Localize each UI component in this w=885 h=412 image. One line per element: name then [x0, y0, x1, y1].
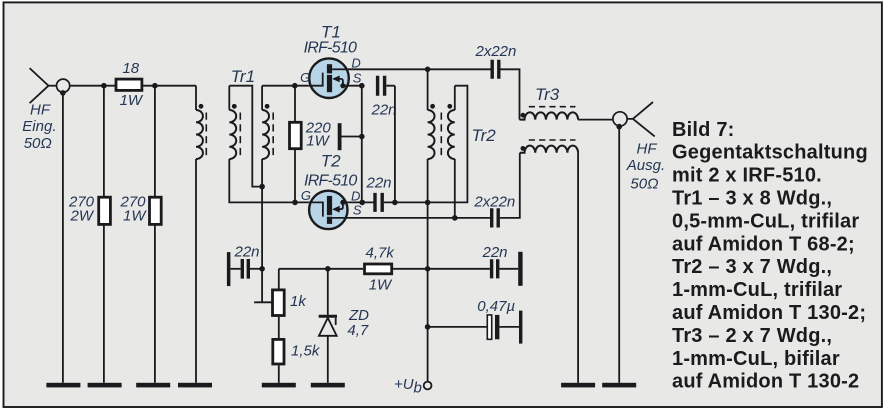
- svg-text:IRF-510: IRF-510: [304, 173, 357, 190]
- Tr2 left winding axis: [427, 69, 429, 381]
- svg-text:0,47µ: 0,47µ: [477, 298, 515, 315]
- ground bar 7: [561, 383, 595, 388]
- wire Tr3 bottom to ground: [577, 153, 579, 383]
- wire 0,47u row: [428, 326, 487, 328]
- svg-text:G: G: [301, 188, 311, 203]
- svg-text:mit 2 x IRF-510.: mit 2 x IRF-510.: [672, 165, 822, 187]
- svg-text:Bild 7:: Bild 7:: [672, 119, 735, 141]
- node output ground junction: [616, 124, 622, 130]
- node T2 gate: [292, 200, 298, 206]
- ground bar 4: [178, 383, 212, 388]
- svg-text:Tr1 – 3 x 8 Wdg.,: Tr1 – 3 x 8 Wdg.,: [672, 188, 832, 210]
- svg-text:1W: 1W: [120, 92, 144, 109]
- capacitor 2x22n top: [492, 60, 499, 79]
- svg-text:4,7k: 4,7k: [366, 245, 396, 262]
- svg-text:S: S: [353, 71, 362, 86]
- resistor 220 1W: [290, 122, 302, 148]
- svg-text:Tr2: Tr2: [472, 126, 497, 145]
- Tr2 right winding top wire: [454, 86, 456, 110]
- capacitor 22n bias: [242, 259, 248, 279]
- wire 270 1W branch: [154, 86, 156, 383]
- svg-text:D: D: [351, 189, 360, 204]
- potentiometer wiper bar: [254, 301, 272, 303]
- node supply column / bias row: [425, 266, 431, 272]
- wire bias ground to cap: [230, 268, 240, 270]
- wire output to ground: [618, 127, 620, 383]
- wire bottom cap to Tr3: [500, 153, 520, 218]
- resistor 4,7k 1W: [365, 264, 392, 274]
- ground bar 3: [136, 383, 170, 388]
- wire bias cap to node: [250, 268, 262, 270]
- svg-text:1-mm-CuL, trifilar: 1-mm-CuL, trifilar: [672, 279, 842, 301]
- svg-text:Tr2 – 3 x 7 Wdg.,: Tr2 – 3 x 7 Wdg.,: [672, 256, 832, 278]
- Tr1 winding 2 top link wire: [229, 86, 262, 187]
- svg-text:1,5k: 1,5k: [291, 343, 321, 360]
- svg-text:auf Amidon T 68-2;: auf Amidon T 68-2;: [672, 233, 855, 255]
- HF input connector arrow: [30, 68, 49, 103]
- svg-text:HF: HF: [30, 102, 51, 119]
- svg-text:b: b: [414, 380, 422, 397]
- Tr2 right winding polarity dot: [447, 104, 452, 109]
- wire T1 drain row: [346, 68, 491, 70]
- capacitor 22n bias right: [492, 259, 498, 278]
- ground bar 1: [46, 383, 80, 388]
- resistor 270 1W: [150, 197, 162, 224]
- wire 270 2W branch: [103, 86, 105, 383]
- node input ground junction: [60, 90, 66, 96]
- Tr1 winding 1 polarity dot: [199, 104, 204, 109]
- Tr1 winding 1 wire top: [195, 86, 197, 110]
- Tr1 winding 1 wire to ground: [195, 159, 197, 383]
- node zener tap: [325, 266, 331, 272]
- svg-text:Tr3 – 2 x 7 Wdg.,: Tr3 – 2 x 7 Wdg.,: [672, 325, 832, 347]
- wire Tr3 top to output: [578, 119, 612, 121]
- node 270-2W tap: [101, 83, 107, 89]
- svg-text:+U: +U: [394, 376, 414, 393]
- capacitor 22n T1 source: [378, 76, 385, 96]
- svg-text:22n: 22n: [482, 244, 508, 261]
- svg-text:T2: T2: [321, 151, 341, 170]
- resistor 18 1W: [116, 79, 142, 90]
- svg-text:50Ω: 50Ω: [630, 175, 658, 192]
- ground bar bias left: [227, 252, 231, 286]
- Tr3 bottom winding polarity dot: [521, 146, 526, 151]
- ground stub bar: [338, 123, 342, 150]
- svg-text:1W: 1W: [306, 133, 330, 150]
- wire top input row: [70, 85, 196, 87]
- supply terminal +Ub: [424, 382, 432, 390]
- wire 1k to 1.5k: [278, 317, 280, 338]
- svg-text:HF: HF: [637, 141, 658, 158]
- wire top cap to Tr3: [500, 69, 519, 119]
- node T1 source: [359, 83, 365, 89]
- svg-text:Tr3: Tr3: [535, 85, 560, 104]
- ground bar bias right: [518, 252, 522, 286]
- output connector circle: [613, 112, 627, 126]
- Tr1 winding 2 core dashes: [239, 113, 241, 158]
- Tr3 top core dashes: [529, 106, 576, 108]
- capacitor 0,47u electrolytic: [487, 315, 499, 339]
- node T2 drain: [359, 200, 365, 206]
- node drain row / source cap corner: [392, 200, 398, 206]
- resistor 220 1W wire: [294, 86, 296, 203]
- Tr2 right winding bottom wire: [454, 159, 456, 218]
- wire ground stub: [342, 136, 362, 138]
- svg-text:18: 18: [122, 60, 139, 77]
- svg-text:22n: 22n: [366, 175, 392, 192]
- Tr1 winding 2 polarity dot: [232, 104, 237, 109]
- wire right cap to ground bar: [499, 268, 518, 270]
- node Tr1 w2/w3 junction: [259, 184, 265, 190]
- svg-text:D: D: [351, 56, 360, 71]
- Tr2 core dashes: [440, 113, 442, 158]
- resistor 270 2W: [99, 197, 111, 224]
- HF output connector arrow: [628, 102, 655, 136]
- svg-text:auf Amidon T 130-2;: auf Amidon T 130-2;: [672, 302, 866, 324]
- svg-text:4,7: 4,7: [347, 322, 369, 339]
- svg-text:Tr1: Tr1: [231, 67, 255, 86]
- svg-text:1-mm-CuL, bifilar: 1-mm-CuL, bifilar: [672, 348, 840, 370]
- wire 0,47u to ground bar: [499, 326, 519, 328]
- Tr3 bottom winding coil: [520, 146, 578, 153]
- svg-text:1W: 1W: [123, 208, 147, 225]
- input connector circle: [57, 79, 70, 92]
- Tr3 bottom core dashes: [529, 139, 576, 141]
- wire T1 source down to T2 drain: [361, 86, 363, 203]
- node drain row / supply column: [425, 200, 431, 206]
- node 270-1W tap: [152, 83, 158, 89]
- svg-text:2x22n: 2x22n: [473, 194, 515, 211]
- node Tr2 left top: [425, 67, 431, 73]
- ground bar 8: [602, 383, 636, 388]
- svg-text:S: S: [353, 203, 362, 218]
- svg-text:2x22n: 2x22n: [475, 43, 517, 60]
- Tr2 left winding polarity dot: [430, 104, 435, 109]
- capacitor 2x22n bottom: [492, 208, 499, 227]
- capacitor 22n T2 drain: [375, 193, 382, 212]
- Tr1 winding 3 core dashes: [272, 113, 274, 158]
- potentiometer 1k: [273, 290, 285, 316]
- node Tr2 right bottom / T2 source row: [452, 215, 458, 221]
- svg-text:IRF-510: IRF-510: [304, 40, 357, 57]
- Tr2 left winding coil: [428, 110, 435, 159]
- node ground stub junction: [359, 134, 365, 140]
- node bias junction: [259, 266, 265, 272]
- svg-text:Gegentaktschaltung: Gegentaktschaltung: [672, 142, 868, 164]
- wire input arrow to connector circle: [49, 85, 56, 87]
- ground bar 5: [262, 383, 296, 388]
- caption text Bild 7: [672, 119, 868, 393]
- svg-text:1k: 1k: [290, 293, 307, 310]
- svg-text:1W: 1W: [369, 277, 393, 294]
- svg-text:22n: 22n: [371, 102, 397, 119]
- wire T2 drain row: [384, 86, 467, 203]
- Tr1 winding 2 wire bottom to T2 gate: [229, 159, 308, 202]
- node supply column / 0,47u row: [425, 324, 431, 330]
- wire T2 source row: [349, 217, 491, 219]
- Tr1 winding 3 top wire to T1 gate: [262, 85, 308, 87]
- svg-text:22n: 22n: [234, 244, 260, 261]
- svg-text:Eing.: Eing.: [22, 118, 56, 135]
- wire cap to corner down: [386, 86, 395, 203]
- svg-text:G: G: [300, 70, 310, 85]
- transistor T1 IRF-510: [308, 58, 362, 98]
- ground bar 2: [88, 383, 122, 388]
- wire input to ground: [62, 93, 64, 383]
- ground bar 6: [311, 383, 345, 388]
- Tr1 winding 1 core dashes: [205, 113, 207, 158]
- svg-text:50Ω: 50Ω: [24, 135, 52, 152]
- Tr1 winding 3 coil: [262, 110, 269, 159]
- Tr1 winding 1 coil: [196, 110, 203, 159]
- zener diode ZD 4,7: [319, 269, 337, 383]
- svg-text:Ausg.: Ausg.: [626, 157, 665, 174]
- ground bar 0,47u: [519, 311, 522, 344]
- resistor 1,5k: [273, 339, 284, 364]
- Tr1 winding 3 axis wire: [261, 86, 263, 303]
- node T1 gate: [292, 83, 298, 89]
- svg-text:2W: 2W: [70, 208, 95, 225]
- wire 1,5k to ground: [278, 365, 280, 382]
- Tr1 winding 2 wire top: [228, 86, 230, 110]
- Tr3 top winding polarity dot: [521, 113, 526, 118]
- svg-text:0,5-mm-CuL, trifilar: 0,5-mm-CuL, trifilar: [672, 210, 859, 232]
- wire bias row right: [279, 269, 490, 289]
- svg-text:auf Amidon T 130-2: auf Amidon T 130-2: [672, 371, 859, 393]
- Tr1 winding 2 coil: [229, 110, 236, 159]
- Tr3 top winding coil: [520, 112, 579, 119]
- Tr1 winding 3 polarity dot: [265, 104, 270, 109]
- Tr2 right winding coil: [448, 110, 455, 159]
- transistor T2 IRF-510: [308, 191, 373, 229]
